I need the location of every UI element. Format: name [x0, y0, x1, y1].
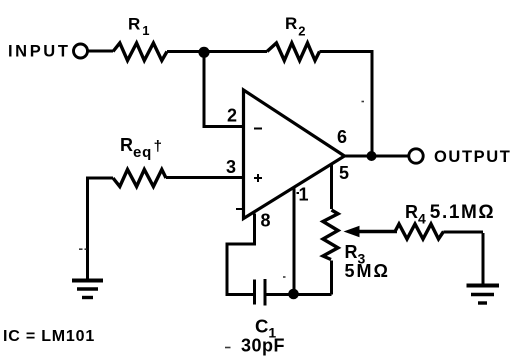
svg-text:INPUT: INPUT	[8, 43, 71, 61]
svg-text:3: 3	[226, 157, 236, 177]
svg-text:5MΩ: 5MΩ	[345, 261, 390, 281]
svg-text:8: 8	[260, 211, 270, 231]
svg-text:5: 5	[339, 163, 349, 183]
svg-text:OUTPUT: OUTPUT	[434, 148, 511, 166]
svg-text:2: 2	[227, 106, 237, 126]
svg-text:30pF: 30pF	[241, 336, 285, 356]
svg-text:6: 6	[337, 127, 347, 147]
svg-text:1: 1	[298, 185, 308, 205]
svg-text:IC = LM101: IC = LM101	[3, 328, 95, 345]
